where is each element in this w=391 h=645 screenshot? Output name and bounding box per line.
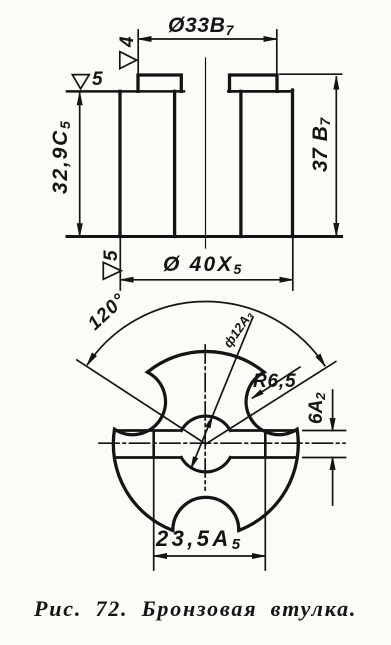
- node surface mark triangle 5 bottom-left: [103, 262, 121, 279]
- wire 120deg radial line left: [77, 360, 206, 444]
- svg-text:32,9C5: 32,9C5: [49, 119, 73, 194]
- wire vertical centerline: [204, 345, 206, 490]
- wire O33 extension lines: [137, 30, 139, 73]
- svg-text:Рис. 72. Бронзовая втулка.: Рис. 72. Бронзовая втулка.: [33, 596, 357, 621]
- wire horizontal centerline: [99, 442, 345, 444]
- node inner hole circle top arc: [181, 416, 230, 430]
- node shoulder lines: [67, 90, 184, 93]
- node surface mark triangle 5 top-left: [72, 75, 89, 89]
- wire phi12 diameter line: [191, 318, 252, 468]
- wire 120deg dimension arc: [88, 301, 325, 365]
- wire 120deg radial line right: [206, 362, 336, 445]
- wire 6A2 extension lines: [303, 430, 346, 432]
- svg-text:5: 5: [101, 250, 122, 261]
- svg-text:5: 5: [92, 69, 103, 90]
- node body O40 outline: [118, 91, 121, 236]
- wire 23,5A5 dimension line: [155, 555, 265, 557]
- wire 37B7 dimension line: [335, 77, 337, 236]
- wire O33 dimension line: [139, 38, 276, 40]
- wire R6,5 leader: [253, 367, 301, 398]
- node inner hole circle bottom arc: [181, 458, 230, 472]
- svg-text:23,5A5: 23,5A5: [155, 526, 243, 553]
- svg-text:R6,5: R6,5: [253, 371, 296, 392]
- node slot end edges: [152, 431, 155, 458]
- node slot chord lines: [114, 429, 181, 432]
- wire 37B7 top extension: [280, 73, 342, 75]
- svg-text:Ø 40X5: Ø 40X5: [163, 253, 244, 277]
- wire 6A2 dimension line: [332, 390, 334, 431]
- wire 32,9C5 dimension line: [79, 93, 81, 236]
- node surface mark triangle 4 on O33 extension: [120, 52, 137, 69]
- svg-text:4: 4: [117, 36, 138, 48]
- wire centerline of front view: [205, 58, 207, 248]
- svg-text:Ø33B7: Ø33B7: [168, 14, 235, 38]
- wire O40 extension lines: [119, 239, 121, 291]
- wire O40 dimension line: [121, 279, 292, 281]
- wire 23,5A5 extension lines: [153, 459, 155, 570]
- node outer circle with three notches: [113, 351, 298, 530]
- node top collar O33 outline: [138, 75, 181, 91]
